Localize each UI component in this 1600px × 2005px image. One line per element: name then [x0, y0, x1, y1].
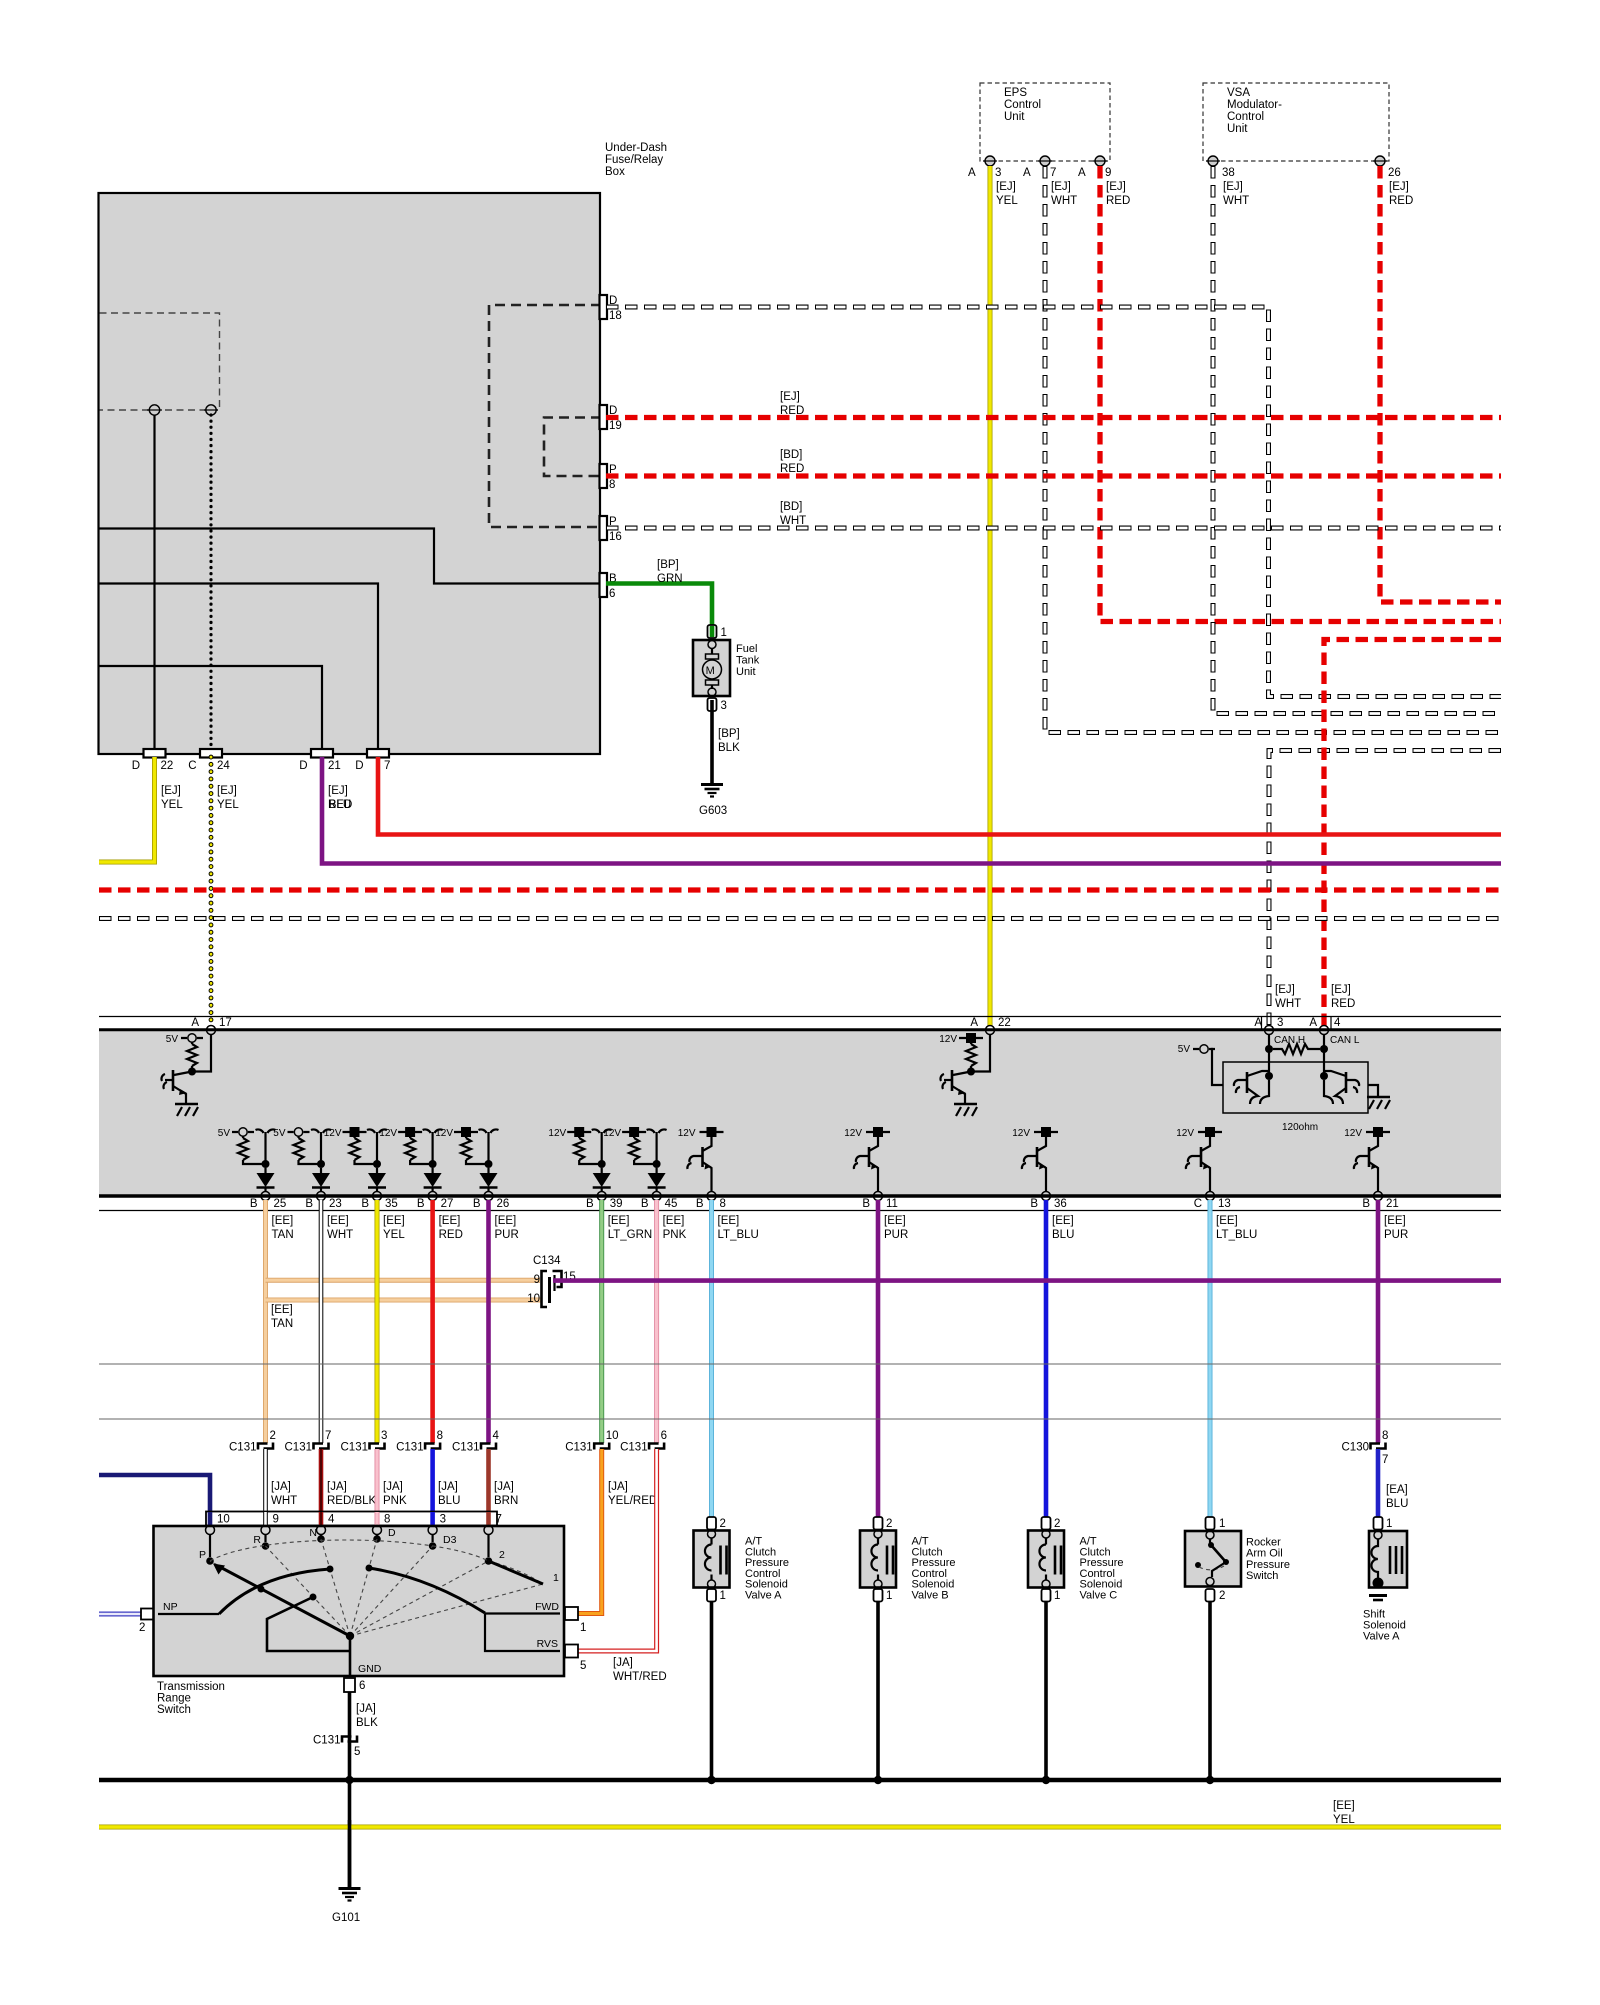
svg-text:1: 1 [720, 1590, 726, 1602]
section divider line 1 [99, 1363, 1501, 1365]
svg-text:D: D [132, 760, 140, 772]
wire EJ WHT from VSA 38 dashed [1213, 166, 1501, 714]
svg-text:GRN: GRN [657, 573, 683, 585]
svg-text:R: R [253, 1534, 261, 1546]
TRS contact D3 [429, 1542, 437, 1550]
svg-text:RED: RED [780, 405, 804, 417]
svg-text:BLU: BLU [438, 1495, 460, 1507]
svg-text:Under-Dash: Under-Dash [605, 142, 667, 154]
yellow EE YEL bus [99, 1825, 1501, 1830]
svg-text:[JA]: [JA] [438, 1481, 458, 1493]
connector C131 pin 10 [594, 1444, 604, 1450]
wire relay to D22 [153, 415, 155, 750]
ground G101 [339, 1887, 361, 1890]
svg-text:[EJ]: [EJ] [1051, 181, 1071, 193]
A/T clutch pressure control solenoid Valve B [860, 1531, 896, 1588]
EPS terminal [985, 156, 995, 166]
svg-text:12V: 12V [435, 1128, 453, 1139]
svg-text:[JA]: [JA] [494, 1481, 514, 1493]
wire JA PNK to TRS pin 8 [375, 1449, 380, 1528]
PCM output pin circle [261, 1192, 270, 1201]
svg-text:6: 6 [661, 1430, 667, 1442]
EPS control unit box [980, 83, 1110, 161]
svg-text:1: 1 [553, 1572, 559, 1584]
under-dash fuse/relay box [99, 193, 601, 754]
svg-text:4: 4 [493, 1430, 500, 1442]
connector C131 pin 4 [481, 1444, 491, 1450]
A/T clutch pressure control solenoid Valve C [1028, 1531, 1064, 1588]
svg-text:Valve C: Valve C [1080, 1590, 1118, 1602]
PCM output pin circle [597, 1192, 606, 1201]
wire EE PUR from B21 [1376, 1200, 1381, 1443]
svg-text:9: 9 [1105, 167, 1111, 179]
svg-text:BLU: BLU [329, 799, 351, 811]
connector C131 pin 2 [258, 1444, 268, 1450]
svg-text:6: 6 [609, 588, 615, 600]
PCM output pin circle [317, 1192, 326, 1201]
svg-text:[EJ]: [EJ] [161, 785, 181, 797]
wire EE WHT from B23 [319, 1200, 324, 1443]
PCM output pin circle [1206, 1192, 1215, 1201]
TRS wiper blade to P with arrow [220, 1567, 350, 1636]
TRS contact D [373, 1535, 381, 1543]
svg-text:FWD: FWD [535, 1601, 559, 1613]
wire EJ YEL from D22 [99, 757, 155, 862]
svg-text:Unit: Unit [1004, 111, 1025, 123]
svg-text:C131: C131 [452, 1442, 480, 1454]
connector C131 pin 8 [425, 1444, 435, 1450]
svg-text:17: 17 [219, 1017, 232, 1029]
driver diode [601, 1168, 603, 1173]
svg-text:B: B [696, 1198, 704, 1210]
TRS blade contact 2 to 1 [489, 1561, 544, 1584]
svg-text:Valve A: Valve A [1363, 1631, 1400, 1643]
ground bus [99, 1778, 1501, 1783]
svg-text:3: 3 [721, 700, 727, 712]
A/T clutch pressure control solenoid Valve B pin 2 [874, 1517, 883, 1530]
svg-text:YEL: YEL [217, 799, 239, 811]
wire EJ RED from EPS A9 dashed [1100, 166, 1501, 622]
connector C130 pin 8 [1371, 1444, 1381, 1450]
rocker arm oil pressure switch pin 1 [1206, 1517, 1215, 1530]
connector C131 pin 5 [342, 1737, 352, 1743]
fuse box pin P16 [600, 516, 608, 540]
svg-text:5: 5 [580, 1660, 586, 1672]
svg-text:12V: 12V [939, 1034, 957, 1045]
svg-text:RVS: RVS [537, 1638, 558, 1650]
svg-text:12V: 12V [379, 1128, 397, 1139]
svg-text:WHT: WHT [780, 515, 806, 527]
svg-text:Transmission: Transmission [157, 1681, 225, 1693]
svg-text:7: 7 [496, 1514, 502, 1526]
svg-text:[EA]: [EA] [1386, 1484, 1408, 1496]
svg-text:LT_GRN: LT_GRN [608, 1229, 653, 1241]
fuel tank unit pin 1 [708, 625, 717, 638]
svg-text:Modulator-: Modulator- [1227, 99, 1282, 111]
driver diode [487, 1168, 489, 1173]
fuse box pin D22 [144, 749, 166, 758]
TRS GND wire internal [349, 1636, 352, 1676]
svg-text:[EJ]: [EJ] [1275, 984, 1295, 996]
wire EE BLU from B36 [1044, 1200, 1049, 1517]
wire JA WHT to TRS pin 9 [263, 1449, 268, 1528]
wire NP blue [99, 1612, 142, 1617]
svg-text:A: A [1023, 167, 1031, 179]
svg-text:WHT/RED: WHT/RED [613, 1671, 667, 1683]
wire to TRS pin 10 navy [99, 1475, 210, 1528]
PCM CAN transistor right [1320, 1072, 1328, 1080]
svg-text:10: 10 [527, 1293, 540, 1305]
svg-text:WHT: WHT [1223, 195, 1249, 207]
svg-text:TAN: TAN [271, 1318, 293, 1330]
svg-text:BRN: BRN [494, 1495, 518, 1507]
svg-text:5: 5 [354, 1746, 360, 1758]
fuel tank motor M [703, 660, 722, 679]
NP connector pin 2 [141, 1609, 155, 1620]
svg-text:[BP]: [BP] [718, 728, 740, 740]
svg-text:C: C [1194, 1198, 1202, 1210]
transmission range switch header [206, 1512, 497, 1526]
dashed internal block large [489, 305, 601, 527]
svg-text:[EE]: [EE] [439, 1215, 461, 1227]
svg-text:3: 3 [995, 167, 1001, 179]
svg-text:45: 45 [665, 1198, 678, 1210]
svg-text:YEL: YEL [1333, 1814, 1355, 1826]
svg-text:[EJ]: [EJ] [1389, 181, 1409, 193]
svg-text:P: P [199, 1549, 206, 1561]
wire BP GRN from B6 [606, 584, 712, 626]
TRS NP internal wire [158, 1613, 219, 1615]
rocker switch blade [1211, 1545, 1225, 1561]
PCM input junction [188, 1068, 196, 1076]
svg-text:7: 7 [384, 760, 390, 772]
section divider line 2 [99, 1418, 1501, 1420]
svg-text:27: 27 [441, 1198, 454, 1210]
svg-text:25: 25 [274, 1198, 287, 1210]
red dashed bus [99, 887, 1501, 892]
svg-text:5V: 5V [1178, 1044, 1191, 1055]
svg-text:12V: 12V [1344, 1128, 1362, 1139]
TRS GND pin 6 [344, 1678, 355, 1692]
svg-text:13: 13 [1218, 1198, 1231, 1210]
PCM pin A3 [1265, 1026, 1274, 1035]
svg-text:B: B [473, 1198, 481, 1210]
PCM CAN transceiver box [1223, 1062, 1368, 1113]
wire EJ WHT feed to PCM A3 dashed [1269, 751, 1501, 1027]
svg-text:[EE]: [EE] [663, 1215, 685, 1227]
wire fuse box internal to D21 [99, 666, 323, 750]
wire EE LT_BLU from C13 [1208, 1200, 1213, 1517]
TRS terminal circle [317, 1526, 326, 1535]
TRS dashed rays from common point [210, 1561, 350, 1636]
svg-text:4: 4 [1334, 1017, 1341, 1029]
svg-text:LT_BLU: LT_BLU [1216, 1229, 1257, 1241]
svg-text:Unit: Unit [736, 666, 756, 678]
PCM strip thin top line [99, 1016, 1501, 1018]
driver diode [376, 1168, 378, 1173]
svg-text:PNK: PNK [663, 1229, 687, 1241]
white dashed bus [99, 916, 1501, 921]
wire JA BLK from TRS GND [348, 1692, 352, 1780]
VSA terminal [1375, 156, 1385, 166]
svg-text:PUR: PUR [884, 1229, 908, 1241]
VSA terminal [1208, 156, 1218, 166]
svg-text:[EJ]: [EJ] [780, 391, 800, 403]
svg-text:EPS: EPS [1004, 87, 1027, 99]
svg-text:[EE]: [EE] [884, 1215, 906, 1227]
PCM body [99, 1031, 1501, 1195]
rocker arm oil pressure switch [1185, 1531, 1241, 1587]
svg-text:B: B [361, 1198, 369, 1210]
svg-text:22: 22 [998, 1017, 1011, 1029]
svg-text:19: 19 [609, 420, 622, 432]
svg-text:[EE]: [EE] [327, 1215, 349, 1227]
svg-text:11: 11 [886, 1198, 898, 1210]
PCM input transistor [172, 1070, 175, 1091]
connector C131 pin 6 [649, 1444, 659, 1450]
svg-text:3: 3 [381, 1430, 387, 1442]
svg-text:[EE]: [EE] [383, 1215, 405, 1227]
wire EE PUR from B26 [486, 1200, 491, 1443]
relay dashed sub-box [100, 313, 220, 410]
svg-text:D3: D3 [443, 1534, 457, 1546]
svg-text:26: 26 [1388, 167, 1401, 179]
svg-text:12V: 12V [1012, 1128, 1030, 1139]
svg-text:C131: C131 [565, 1442, 593, 1454]
svg-text:YEL: YEL [383, 1229, 405, 1241]
svg-text:39: 39 [610, 1198, 623, 1210]
svg-text:[EE]: [EE] [718, 1215, 740, 1227]
PCM pin A17 [207, 1026, 216, 1035]
svg-text:Valve B: Valve B [912, 1590, 949, 1602]
svg-text:5V: 5V [218, 1128, 231, 1139]
svg-text:A: A [1309, 1017, 1317, 1029]
svg-text:2: 2 [270, 1430, 276, 1442]
A/T clutch pressure control solenoid Valve A pin 2 [707, 1517, 716, 1530]
svg-text:B: B [250, 1198, 258, 1210]
driver diode [264, 1168, 266, 1173]
svg-text:22: 22 [161, 760, 174, 772]
wire EE PUR bus from C134 pin 15 [553, 1278, 1501, 1283]
svg-text:[EE]: [EE] [608, 1215, 630, 1227]
rocker arm oil pressure switch pin 2 [1206, 1589, 1215, 1602]
svg-text:D: D [299, 760, 307, 772]
TRS terminal circle [373, 1526, 382, 1535]
svg-text:7: 7 [325, 1430, 331, 1442]
TRS RVS terminal [564, 1646, 570, 1657]
svg-text:B: B [305, 1198, 313, 1210]
dashed internal block small [544, 418, 601, 477]
svg-text:D: D [355, 760, 363, 772]
svg-text:PUR: PUR [1384, 1229, 1408, 1241]
rocker switch ground wire [1208, 1602, 1212, 1781]
PCM CAN L node [1323, 1034, 1325, 1076]
svg-text:WHT: WHT [1275, 998, 1301, 1010]
svg-text:Box: Box [605, 166, 625, 178]
TRS dashed contact arc [210, 1540, 489, 1561]
svg-text:WHT: WHT [327, 1229, 353, 1241]
svg-text:[EE]: [EE] [271, 1304, 293, 1316]
wire BLK over yellow bus [348, 1820, 352, 1888]
svg-text:RED: RED [780, 463, 804, 475]
PCM output pin circle [652, 1192, 661, 1201]
A/T clutch pressure control solenoid Valve C pin 2 [1042, 1517, 1051, 1530]
PCM strip thin bottom line [99, 1210, 1501, 1212]
svg-text:Switch: Switch [157, 1704, 191, 1716]
svg-text:C131: C131 [341, 1442, 369, 1454]
PCM CAN ground [1368, 1085, 1378, 1097]
wire EJ RED from VSA 26 dashed [1380, 166, 1501, 602]
svg-text:[EE]: [EE] [1052, 1215, 1074, 1227]
PCM output pin circle [1042, 1192, 1051, 1201]
svg-text:C131: C131 [620, 1442, 648, 1454]
wire BD RED from fuse box P8 dashed [606, 473, 1501, 478]
svg-text:[EJ]: [EJ] [328, 785, 348, 797]
EPS terminal [1040, 156, 1050, 166]
wire EE LT_GRN from B39 [599, 1200, 604, 1443]
svg-text:1: 1 [580, 1622, 586, 1634]
PCM pin A4 [1320, 1026, 1329, 1035]
TRS contact R [262, 1542, 270, 1550]
svg-text:C: C [188, 760, 196, 772]
svg-text:[JA]: [JA] [356, 1703, 376, 1715]
PCM output pin circle [1374, 1192, 1383, 1201]
connector C131 pin 3 [370, 1444, 380, 1450]
solenoid Valve A ground wire [710, 1602, 714, 1781]
svg-text:26: 26 [497, 1198, 510, 1210]
svg-text:5V: 5V [166, 1034, 179, 1045]
TRS terminal circle [484, 1526, 493, 1535]
svg-text:3: 3 [440, 1514, 446, 1526]
svg-text:BLU: BLU [1052, 1229, 1074, 1241]
svg-text:WHT: WHT [1051, 195, 1077, 207]
EPS terminal [1095, 156, 1105, 166]
TRS terminal circle [206, 1526, 215, 1535]
PCM input transistor [951, 1070, 954, 1091]
svg-text:D: D [388, 1527, 396, 1539]
svg-text:G101: G101 [332, 1912, 360, 1924]
svg-text:C131: C131 [313, 1735, 341, 1747]
svg-text:6: 6 [359, 1680, 365, 1692]
TRS contact N [317, 1535, 325, 1543]
svg-text:B: B [1362, 1198, 1370, 1210]
TRS contact 2 [485, 1557, 493, 1565]
svg-text:1: 1 [886, 1590, 892, 1602]
svg-text:10: 10 [606, 1430, 619, 1442]
svg-text:YEL: YEL [161, 799, 183, 811]
svg-text:3: 3 [1277, 1017, 1283, 1029]
TRS FWD terminal [564, 1608, 570, 1619]
svg-text:BLU: BLU [1386, 1498, 1408, 1510]
svg-text:Control: Control [1227, 111, 1264, 123]
svg-text:LT_BLU: LT_BLU [718, 1229, 759, 1241]
PCM input ground [175, 1103, 198, 1106]
svg-text:Tank: Tank [736, 654, 760, 666]
svg-text:[BP]: [BP] [657, 559, 679, 571]
PCM output pin circle [373, 1192, 382, 1201]
TRS wiper arc right [366, 1565, 373, 1572]
wire EJ WHT from fuse box D18 dashed [606, 307, 1501, 697]
shift solenooid valve A [1369, 1531, 1407, 1588]
svg-text:[EJ]: [EJ] [1223, 181, 1243, 193]
svg-text:RED/BLK: RED/BLK [327, 1495, 377, 1507]
svg-text:[EE]: [EE] [272, 1215, 294, 1227]
svg-text:9: 9 [273, 1514, 279, 1526]
fuse box pin D21 [311, 749, 333, 758]
svg-text:[JA]: [JA] [383, 1481, 403, 1493]
fuel tank unit pin 3 [708, 698, 717, 711]
svg-text:YEL: YEL [996, 195, 1018, 207]
svg-text:A: A [191, 1017, 199, 1029]
shift solenoid valve A ground [1369, 1594, 1387, 1597]
svg-text:36: 36 [1054, 1198, 1067, 1210]
wire EJ RED feed to PCM A4 dashed [1324, 640, 1501, 1027]
driver diode [320, 1168, 322, 1173]
driver diode [432, 1168, 434, 1173]
svg-text:RED: RED [439, 1229, 463, 1241]
svg-text:Pressure: Pressure [1246, 1559, 1290, 1571]
svg-text:[BD]: [BD] [780, 501, 802, 513]
svg-text:NP: NP [163, 1601, 178, 1613]
svg-text:7: 7 [1050, 167, 1056, 179]
svg-text:21: 21 [328, 760, 341, 772]
wire JA BLU to TRS pin 3 [430, 1449, 435, 1528]
svg-text:[EJ]: [EJ] [217, 785, 237, 797]
svg-text:8: 8 [384, 1514, 390, 1526]
svg-text:[EJ]: [EJ] [1331, 984, 1351, 996]
svg-text:1: 1 [1219, 1518, 1225, 1530]
wire JA YEL/RED to TRS FWD [578, 1449, 602, 1614]
svg-text:2: 2 [139, 1622, 145, 1634]
svg-text:C134: C134 [533, 1255, 561, 1267]
TRS wiper arc left [219, 1569, 330, 1614]
wire EE TAN from B25 with C134 branches [263, 1200, 268, 1443]
svg-text:35: 35 [385, 1198, 398, 1210]
svg-text:120ohm: 120ohm [1282, 1122, 1318, 1133]
svg-text:1: 1 [1386, 1518, 1392, 1530]
svg-text:A: A [1078, 167, 1086, 179]
solenoid Valve A pin 1 [707, 1589, 716, 1602]
svg-text:1: 1 [721, 627, 727, 639]
wire EJ YEL dotted from C24 to PCM A17 [209, 757, 214, 1026]
svg-text:M: M [706, 665, 715, 677]
PCM output pin circle [874, 1192, 883, 1201]
svg-text:Arm Oil: Arm Oil [1246, 1548, 1283, 1560]
wire EA BLU from C130 to shift solenoid [1376, 1449, 1381, 1517]
wire EJ WHT from EPS A7 dashed [1045, 166, 1501, 733]
wire EE PUR from B11 [876, 1200, 881, 1517]
svg-text:4: 4 [328, 1514, 335, 1526]
svg-text:[EE]: [EE] [1216, 1215, 1238, 1227]
solenoid Valve B pin 1 [874, 1589, 883, 1602]
svg-text:PNK: PNK [383, 1495, 407, 1507]
TRS terminal circle [428, 1526, 437, 1535]
PCM input pin wire [192, 1034, 211, 1072]
TRS common point [346, 1632, 354, 1640]
svg-text:[JA]: [JA] [327, 1481, 347, 1493]
svg-text:12V: 12V [844, 1128, 862, 1139]
TRS header wires through [208, 1512, 213, 1528]
relay terminal circle 2 [206, 405, 216, 415]
fuse box pin D19 [600, 405, 608, 429]
svg-text:[EE]: [EE] [1333, 1800, 1355, 1812]
wire relay to C24 dotted [209, 415, 212, 750]
svg-text:5V: 5V [273, 1128, 286, 1139]
wire EE LT_BLU from B8 [709, 1200, 714, 1517]
svg-text:RED: RED [1389, 195, 1413, 207]
svg-text:B: B [862, 1198, 870, 1210]
svg-text:12V: 12V [603, 1128, 621, 1139]
